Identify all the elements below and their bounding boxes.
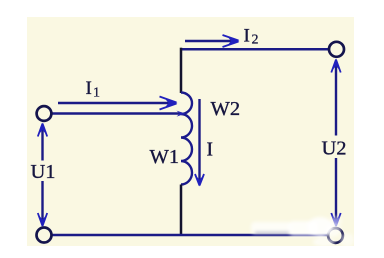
- wire: bottom horizontal between bottom terminals: [52, 234, 328, 236]
- svg-text:1: 1: [93, 86, 100, 101]
- wire: vertical from top corner down to winding top: [180, 48, 183, 93]
- current arrow I2 (output current annotation): [185, 35, 240, 47]
- wire: input tap wire from left terminal to winding tap: [53, 112, 182, 114]
- terminal node: top-left input: [37, 106, 52, 121]
- wire: vertical from winding bottom to bottom wire: [180, 185, 183, 237]
- autotransformer winding W (coil, 4 loops): [181, 93, 192, 185]
- svg-text:2: 2: [252, 33, 259, 48]
- wire: top horizontal from winding top to right terminal: [181, 48, 329, 51]
- svg-text:U2: U2: [322, 138, 347, 160]
- current arrow I1 (input current annotation): [58, 97, 178, 110]
- svg-text:I: I: [86, 78, 92, 99]
- terminal node: bottom-right output: [328, 228, 343, 243]
- voltage arrow U2 (double-headed, between right terminals): [331, 59, 340, 228]
- voltage arrow U1 (double-headed, between left terminals): [38, 123, 47, 228]
- terminal node: bottom-left input: [37, 228, 52, 243]
- svg-text:I: I: [244, 26, 250, 47]
- node: winding tap junction: [177, 111, 186, 117]
- svg-text:W2: W2: [211, 98, 241, 120]
- terminal node: top-right output: [329, 42, 344, 57]
- current arrow I (winding current annotation): [195, 99, 204, 187]
- watermark: [251, 216, 354, 247]
- svg-text:U1: U1: [31, 161, 56, 183]
- svg-text:W1: W1: [150, 146, 180, 168]
- svg-text:I: I: [207, 140, 214, 161]
